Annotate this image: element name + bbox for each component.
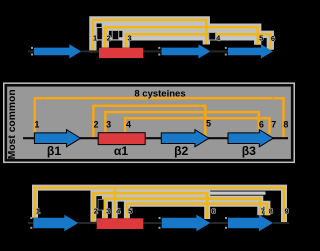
svg-text:5: 5 [259, 34, 263, 43]
svg-text:8 cysteines: 8 cysteines [134, 89, 185, 100]
svg-text:3: 3 [128, 34, 132, 43]
svg-text:1: 1 [36, 207, 40, 216]
svg-text:6: 6 [271, 34, 275, 43]
svg-text:5: 5 [128, 207, 132, 216]
svg-text:6: 6 [211, 207, 215, 216]
svg-text:3: 3 [106, 120, 111, 130]
svg-text:9: 9 [285, 207, 289, 216]
svg-text:2: 2 [94, 207, 98, 216]
svg-text:α1: α1 [114, 144, 128, 158]
svg-text:8: 8 [283, 120, 288, 130]
svg-text:8: 8 [269, 207, 273, 216]
svg-text:β1: β1 [47, 144, 61, 158]
svg-text:2: 2 [93, 120, 98, 130]
svg-text:β2: β2 [174, 144, 188, 158]
svg-text:Most common: Most common [7, 89, 18, 159]
svg-text:4: 4 [126, 120, 131, 130]
svg-text:7: 7 [271, 120, 276, 130]
svg-text:β3: β3 [242, 144, 256, 158]
svg-text:6: 6 [259, 120, 264, 130]
svg-text:5: 5 [206, 119, 211, 129]
svg-text:1: 1 [93, 34, 97, 43]
svg-text:3: 3 [106, 207, 110, 216]
svg-text:1: 1 [34, 120, 39, 130]
svg-text:7: 7 [261, 207, 265, 216]
svg-text:2: 2 [107, 34, 111, 43]
